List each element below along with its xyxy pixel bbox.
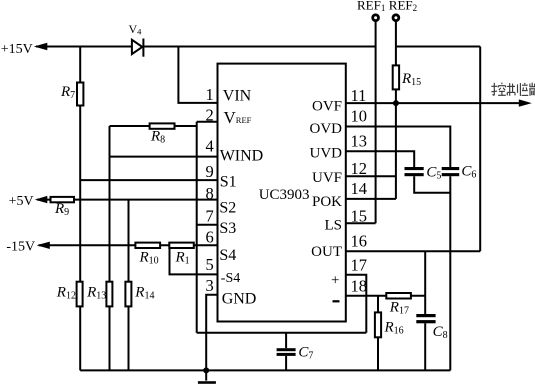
svg-text:C8: C8 xyxy=(433,324,448,341)
svg-text:C6: C6 xyxy=(461,163,476,180)
wire GND pin3 stub and vertical to ground xyxy=(206,295,217,381)
svg-text:10: 10 xyxy=(351,107,368,126)
wire pin17 plus drop xyxy=(346,275,367,333)
svg-text:-S4: -S4 xyxy=(221,271,240,286)
wire pin14 POK stub xyxy=(346,198,396,200)
svg-text:LS: LS xyxy=(324,218,342,234)
capacitor C7 xyxy=(277,348,296,356)
svg-text:R14: R14 xyxy=(134,285,154,302)
wire pin15 LS stub xyxy=(346,222,376,224)
svg-text:POK: POK xyxy=(312,194,342,210)
svg-text:R15: R15 xyxy=(401,71,421,88)
svg-text:R10: R10 xyxy=(139,250,159,267)
wire pin16 OUT horizontal xyxy=(346,250,480,252)
svg-text:S3: S3 xyxy=(219,220,236,237)
svg-text:S4: S4 xyxy=(219,247,236,264)
wire C8 vertical xyxy=(424,251,426,314)
svg-text:R17: R17 xyxy=(389,300,409,317)
svg-text:REF1: REF1 xyxy=(357,0,385,13)
svg-text:7: 7 xyxy=(206,206,214,225)
wire +15V rail left segment xyxy=(36,46,132,48)
wire R16 vertical xyxy=(377,296,379,371)
wire diode to REF1 line xyxy=(144,46,376,48)
arrow control output xyxy=(519,99,532,106)
svg-text:R13: R13 xyxy=(86,285,106,302)
wire pin4 WIND horizontal xyxy=(110,156,218,158)
wire pin11 OVF to control arrow xyxy=(346,102,528,104)
svg-text:11: 11 xyxy=(351,86,367,105)
svg-text:UC3903: UC3903 xyxy=(259,187,310,203)
node junction dot at ground rail xyxy=(203,367,209,373)
svg-text:18: 18 xyxy=(351,276,368,295)
label minus pin18 xyxy=(333,300,340,302)
svg-text:17: 17 xyxy=(351,255,368,274)
resistor R9 xyxy=(51,197,75,202)
svg-text:6: 6 xyxy=(206,228,214,247)
wire pin10 OVD to C6 top xyxy=(346,127,451,168)
wire pin9 S1 horizontal xyxy=(80,179,217,181)
resistor R10 xyxy=(135,243,160,248)
svg-text:2: 2 xyxy=(206,105,214,124)
wire right loop vertical xyxy=(479,47,481,252)
wire pin12 UVF stub xyxy=(346,175,396,177)
diode V4 xyxy=(132,39,144,57)
op-amp U1 IC body UC3903 xyxy=(218,64,346,322)
svg-text:-15V: -15V xyxy=(6,240,35,255)
wire left ladder vertical VREF/S3 xyxy=(196,122,198,333)
resistor R17 xyxy=(386,293,411,299)
wire VIN drop vertical xyxy=(178,47,217,103)
wire C6 bottom to ground rail xyxy=(449,176,451,370)
svg-text:14: 14 xyxy=(351,179,368,198)
wire C8 bottom to rail xyxy=(424,323,426,370)
svg-text:VIN: VIN xyxy=(223,88,252,105)
wire R13 vertical bus xyxy=(109,126,111,370)
wire pin8 S2 +5V horizontal xyxy=(37,199,218,201)
wire pin5 -S4 drop xyxy=(170,245,218,274)
wire C7 bottom to rail xyxy=(285,356,287,371)
wire bottom ground rail xyxy=(80,369,450,371)
svg-text:UVF: UVF xyxy=(312,170,342,186)
terminal REF1 circle xyxy=(373,15,379,21)
svg-text:9: 9 xyxy=(206,162,214,181)
svg-text:16: 16 xyxy=(351,232,368,251)
wire pin7 S3 stub xyxy=(197,224,218,226)
wire R7/R12 vertical bus xyxy=(79,47,81,371)
capacitor C5 xyxy=(405,167,424,176)
ground xyxy=(198,381,216,384)
wire C7 vertical top xyxy=(285,333,287,349)
svg-text:OVD: OVD xyxy=(310,121,343,137)
svg-text:UVD: UVD xyxy=(310,146,343,162)
capacitor C6 xyxy=(442,167,460,176)
svg-text:12: 12 xyxy=(351,159,368,178)
svg-text:R16: R16 xyxy=(384,320,404,337)
svg-text:C7: C7 xyxy=(298,344,313,361)
wire REF2 line to right loop top xyxy=(396,46,480,48)
resistor R15 xyxy=(393,65,399,89)
svg-text:R9: R9 xyxy=(54,201,69,218)
wire mid ground horizontal under IC xyxy=(197,332,367,334)
wire REF2 vertical xyxy=(395,22,397,199)
wire R14 vertical bus xyxy=(128,200,130,371)
resistor R7 xyxy=(77,83,83,106)
capacitor C8 xyxy=(416,314,435,323)
svg-text:V4: V4 xyxy=(129,22,143,37)
svg-text:WIND: WIND xyxy=(220,148,264,165)
svg-text:S1: S1 xyxy=(220,174,237,191)
resistor R1 xyxy=(169,243,194,248)
svg-text:13: 13 xyxy=(351,131,368,150)
wire pin18 minus to C8 line xyxy=(346,295,425,297)
svg-text:4: 4 xyxy=(206,136,214,155)
svg-text:GND: GND xyxy=(222,291,257,308)
svg-text:R12: R12 xyxy=(56,285,76,302)
svg-text:R7: R7 xyxy=(60,84,75,101)
svg-text:OVF: OVF xyxy=(312,99,342,115)
label control terminal 控制端 drawn strokes xyxy=(491,83,535,96)
svg-text:1: 1 xyxy=(206,85,214,104)
arrow -15V xyxy=(37,242,50,249)
wire C5 bottom to C6 line xyxy=(414,176,450,193)
wire REF1 vertical xyxy=(375,22,377,224)
terminal REF2 circle xyxy=(393,15,399,21)
node junction dot at R15 bottom / OVF wire xyxy=(393,100,399,106)
wire pin2 VREF stub xyxy=(197,121,218,123)
svg-text:R8: R8 xyxy=(150,128,165,145)
arrow +5V xyxy=(35,196,48,203)
wire pin13 UVD to C5 top xyxy=(346,151,414,167)
label control terminal chinese xyxy=(0,0,1,1)
resistor R16 xyxy=(375,312,381,337)
svg-text:3: 3 xyxy=(206,276,214,295)
svg-text:R1: R1 xyxy=(175,250,190,267)
svg-text:5: 5 xyxy=(206,255,214,274)
svg-text:S2: S2 xyxy=(219,199,236,216)
svg-text:C5: C5 xyxy=(426,164,441,181)
svg-text:+: + xyxy=(331,272,339,288)
resistor R12 xyxy=(77,282,83,307)
svg-text:+5V: +5V xyxy=(9,194,34,209)
wire R8 horizontal xyxy=(110,125,197,127)
svg-text:REF2: REF2 xyxy=(389,0,417,13)
wire pin6 S4 -15V horizontal xyxy=(39,244,218,246)
resistor R13 xyxy=(106,282,112,307)
svg-text:8: 8 xyxy=(206,184,214,203)
svg-text:15: 15 xyxy=(351,207,368,226)
svg-text:+15V: +15V xyxy=(1,42,33,57)
svg-text:OUT: OUT xyxy=(311,244,342,260)
resistor R8 xyxy=(150,123,175,128)
arrow +15V xyxy=(34,43,48,50)
resistor R14 xyxy=(125,282,131,307)
